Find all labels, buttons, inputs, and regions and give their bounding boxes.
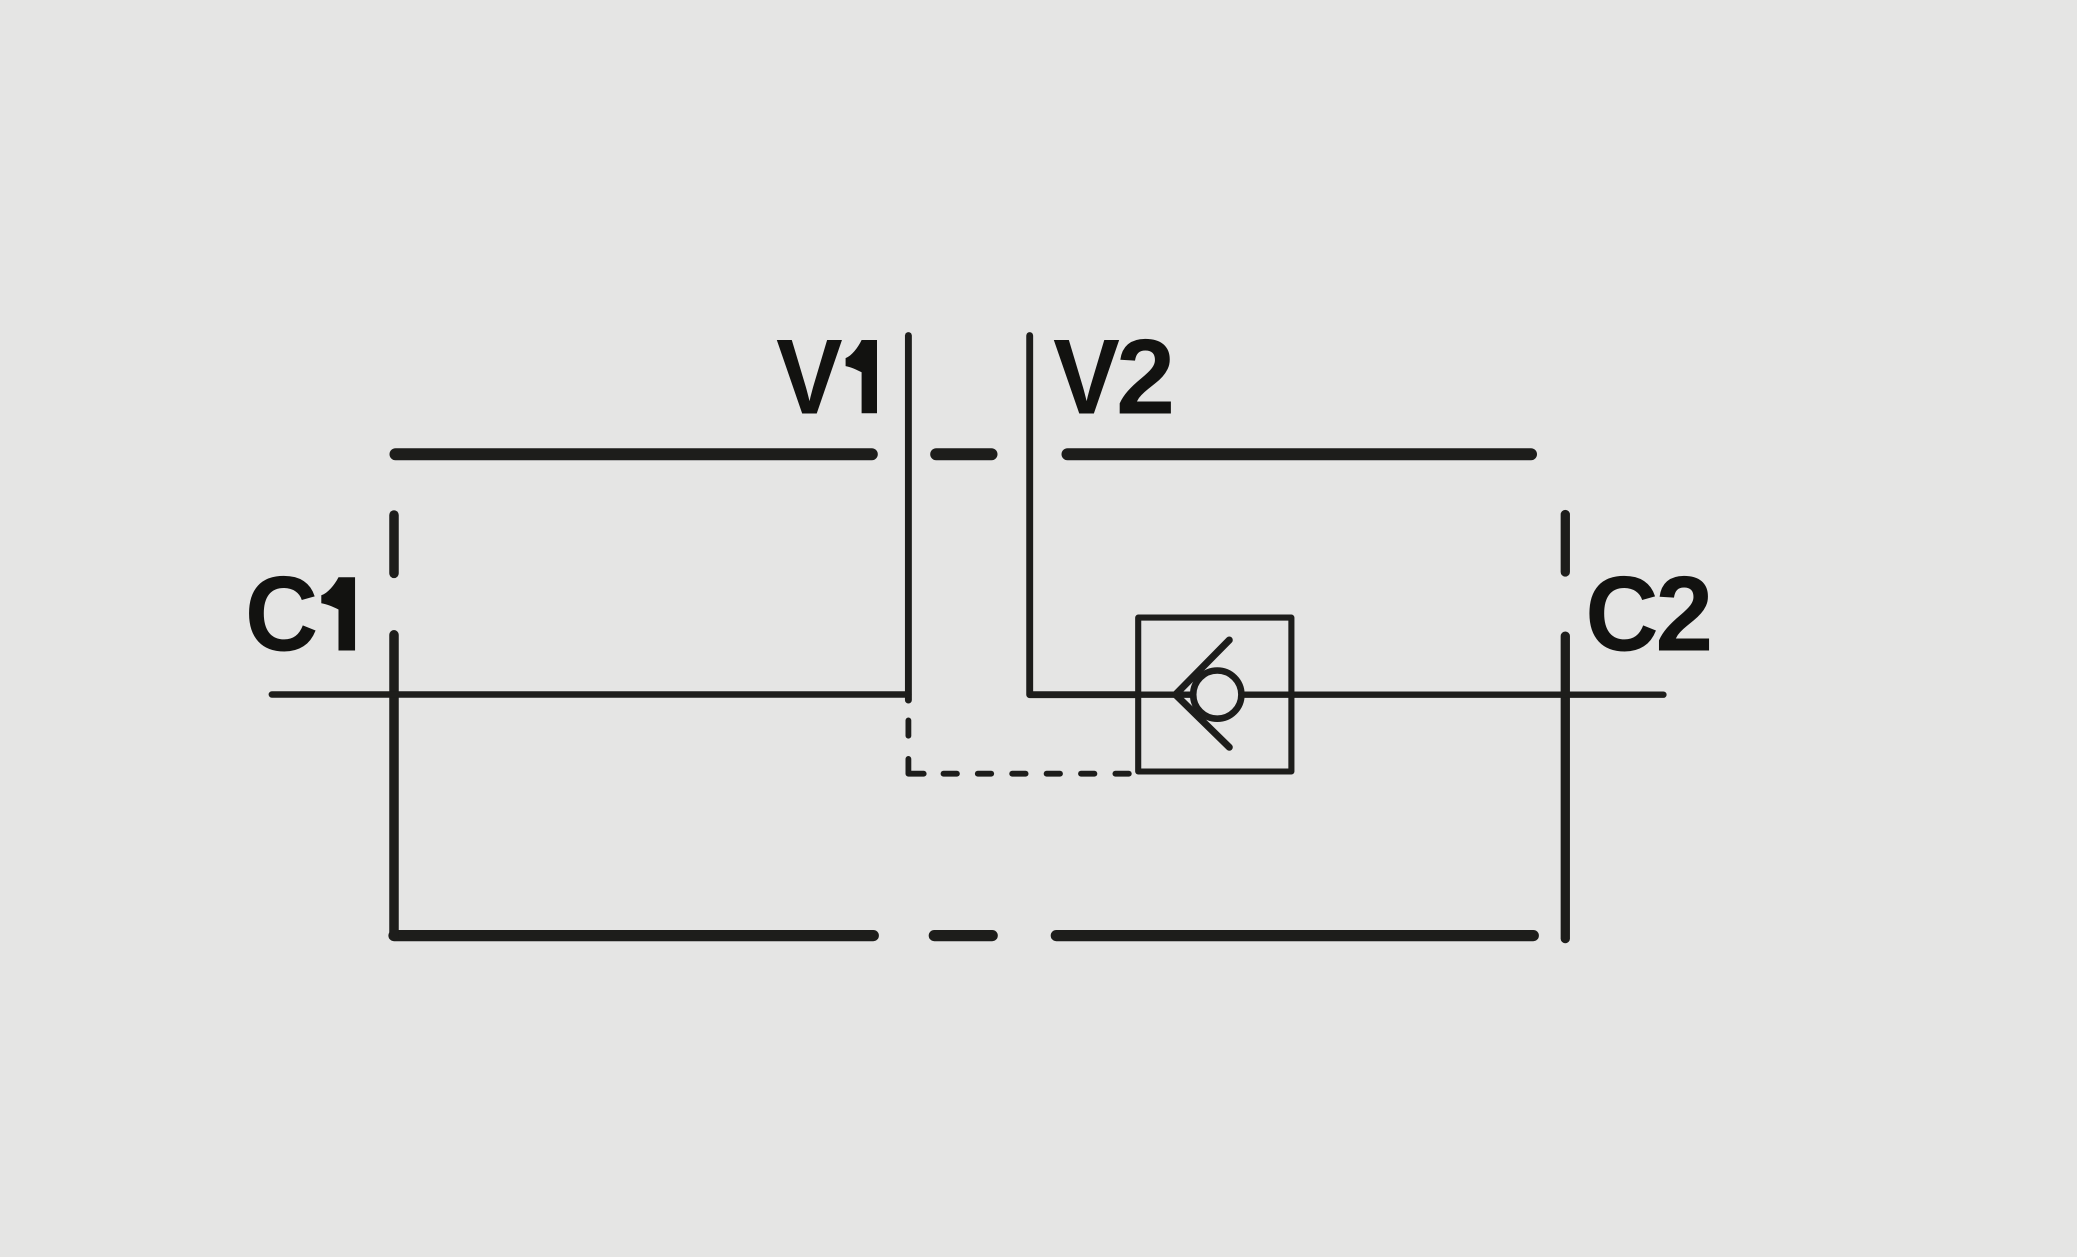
svg-text:V: V <box>776 316 843 436</box>
svg-text:2: 2 <box>1116 316 1175 436</box>
svg-text:V: V <box>1053 316 1120 436</box>
svg-text:2: 2 <box>1655 554 1713 674</box>
svg-text:C: C <box>245 554 318 674</box>
svg-text:C: C <box>1585 554 1658 674</box>
